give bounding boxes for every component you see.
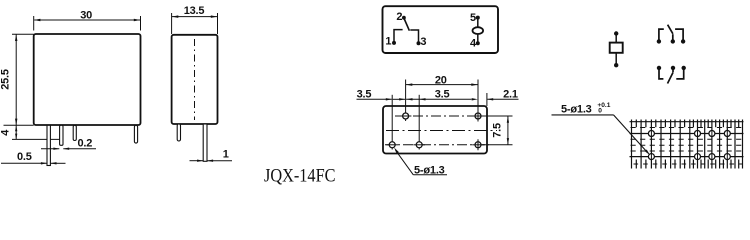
dimension 4 left [12, 125, 61, 139]
grid hole t3 [709, 131, 715, 137]
grid secondary horizontals (dashed) [631, 128, 743, 152]
svg-text:3: 3 [420, 36, 426, 48]
grid hole b3 [709, 154, 715, 160]
blade from 2 [404, 19, 409, 31]
svg-text:7.5: 7.5 [491, 123, 503, 138]
svg-text:3.5: 3.5 [435, 89, 450, 101]
wire from 3 [410, 30, 418, 43]
pin 2 (front view) [60, 125, 63, 145]
side pin left [177, 124, 180, 141]
node 3 [417, 41, 421, 45]
dimension 0.5 [1, 162, 66, 164]
centerline (dashed) [194, 39, 196, 120]
crosshair ticks in grid holes [651, 130, 727, 161]
grid hole t4 [724, 131, 730, 137]
side pin middle (long) [203, 124, 207, 161]
wire from 1 [394, 30, 403, 43]
svg-text:5: 5 [470, 12, 476, 24]
svg-text:30: 30 [80, 10, 92, 22]
dimension 7.5 [483, 116, 513, 145]
contact symbol bottom [659, 68, 684, 84]
dimension 13.5 top [172, 13, 218, 34]
hole bottom-middle [416, 142, 422, 148]
svg-text:JQX-14FC: JQX-14FC [264, 165, 336, 186]
node 5 [476, 16, 480, 20]
contact symbol top [659, 25, 683, 42]
svg-text:1: 1 [385, 36, 391, 48]
grid short vertical ticks bottom band [636, 160, 738, 169]
relay body side view [172, 35, 218, 124]
grid hole b2 [695, 154, 701, 160]
hole bottom-right [475, 142, 481, 148]
grid long horizontals [630, 122, 744, 157]
grid short vertical ticks top band [636, 120, 738, 128]
dimension row 3.5 / 3.5 / 2.1 [357, 98, 519, 100]
dimension 30 top [34, 16, 141, 31]
svg-text:1: 1 [223, 149, 229, 161]
grid hole t1 [648, 131, 654, 137]
extension line through hole bl [391, 95, 393, 150]
schematic box [383, 6, 499, 53]
svg-text:13.5: 13.5 [184, 5, 205, 17]
node 1 [392, 41, 396, 45]
svg-text:5-ø1.3: 5-ø1.3 [561, 104, 592, 116]
dimension 0.2 [41, 148, 96, 150]
dimension 20 [406, 84, 478, 86]
svg-text:0.5: 0.5 [17, 151, 32, 163]
pin 3 (front view) [73, 125, 76, 140]
pin 4 (front view, right) [134, 125, 137, 143]
horizontal ticks through holes [386, 116, 483, 145]
centerline top hole row [395, 115, 489, 117]
centerline middle [386, 130, 497, 132]
tick through hole tr [477, 111, 479, 122]
svg-text:2.1: 2.1 [503, 88, 518, 100]
node 2 [402, 16, 406, 20]
relay body front view [34, 34, 141, 125]
coil ellipse [473, 27, 484, 34]
pin 1 (front view, long pin) [47, 125, 50, 165]
coil wire 5-4 [477, 18, 479, 44]
extension line through hole tr [477, 80, 479, 121]
svg-text:0.2: 0.2 [78, 138, 93, 150]
svg-text:25.5: 25.5 [0, 69, 12, 90]
extension line through hole tl [405, 80, 407, 122]
node 4 [476, 41, 480, 45]
grid dashed horizontal bottom [634, 163, 743, 165]
extension line through hole bm [418, 95, 420, 150]
grid hole b4 [724, 154, 730, 160]
grid hole b1 [648, 154, 654, 160]
hole top-left [403, 113, 409, 119]
dimension 1 (side pin) [190, 160, 233, 162]
dimension 25.5 left [4, 34, 34, 125]
grid long verticals [632, 120, 743, 169]
centerline bottom hole row [385, 144, 489, 146]
extension line rect right edge [486, 93, 488, 106]
svg-text:3.5: 3.5 [357, 89, 372, 101]
hole top-right [475, 113, 481, 119]
grid hole t2 [695, 131, 701, 137]
svg-text:0: 0 [598, 108, 602, 115]
relay bottom view body [383, 106, 487, 154]
svg-text:2: 2 [396, 11, 402, 23]
svg-text:20: 20 [435, 74, 447, 86]
coil symbol [615, 34, 617, 66]
tick through hole br [477, 139, 479, 150]
hole bottom-left [389, 142, 395, 148]
